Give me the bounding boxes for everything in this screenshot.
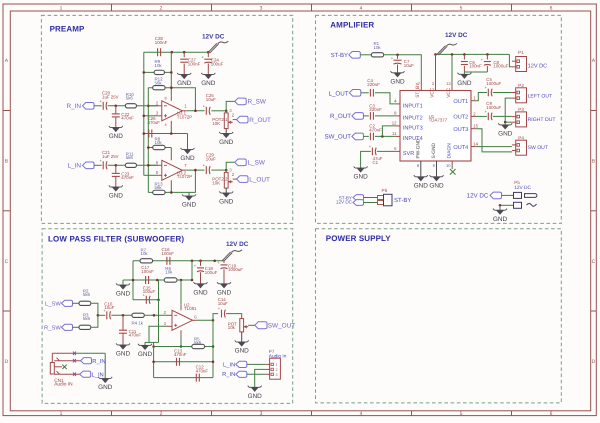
svg-text:R_SW: R_SW xyxy=(248,99,267,106)
svg-text:C1: C1 xyxy=(373,160,379,165)
svg-text:10uF: 10uF xyxy=(218,301,228,306)
svg-text:OUT1: OUT1 xyxy=(453,99,468,105)
svg-text:1000uF: 1000uF xyxy=(486,105,501,110)
svg-text:100uF: 100uF xyxy=(143,289,156,294)
svg-text:12V DC: 12V DC xyxy=(226,241,249,248)
svg-text:4: 4 xyxy=(360,411,363,417)
svg-text:SW OUT: SW OUT xyxy=(528,145,548,151)
svg-text:P6: P6 xyxy=(382,188,388,193)
svg-text:ST-BY: ST-BY xyxy=(331,52,348,59)
svg-text:TL081: TL081 xyxy=(184,306,197,311)
svg-text:LEFT OUT: LEFT OUT xyxy=(528,93,553,99)
svg-text:GND: GND xyxy=(177,80,192,87)
svg-text:11: 11 xyxy=(392,131,397,136)
svg-text:R_SW: R_SW xyxy=(44,325,61,332)
svg-text:10K: 10K xyxy=(212,180,220,185)
svg-text:OUT2: OUT2 xyxy=(453,115,468,121)
svg-text:D: D xyxy=(592,359,596,365)
svg-text:VCC: VCC xyxy=(429,87,435,98)
svg-text:GND: GND xyxy=(116,291,131,298)
svg-text:470nF: 470nF xyxy=(121,116,134,121)
svg-text:100nF: 100nF xyxy=(469,64,482,69)
svg-text:R4 1k: R4 1k xyxy=(132,320,144,325)
svg-text:10uF: 10uF xyxy=(404,63,414,68)
svg-text:TL072P: TL072P xyxy=(177,114,192,119)
svg-text:5k6: 5k6 xyxy=(83,292,91,297)
svg-text:GND: GND xyxy=(219,199,234,206)
svg-text:SW_OUT: SW_OUT xyxy=(325,134,352,141)
svg-text:1: 1 xyxy=(60,6,63,12)
svg-text:12V DC: 12V DC xyxy=(528,64,548,70)
svg-text:GND: GND xyxy=(429,182,444,189)
svg-text:2: 2 xyxy=(276,368,278,372)
svg-text:12V DC: 12V DC xyxy=(202,33,225,40)
svg-text:470nF: 470nF xyxy=(121,175,134,180)
svg-text:L_SW: L_SW xyxy=(248,160,266,167)
svg-text:4: 4 xyxy=(164,123,166,127)
svg-text:5k6: 5k6 xyxy=(126,96,134,101)
svg-text:12V DC: 12V DC xyxy=(514,185,531,191)
svg-text:R_OUT: R_OUT xyxy=(330,113,351,120)
svg-text:3: 3 xyxy=(260,411,263,417)
svg-text:470nF: 470nF xyxy=(369,127,382,132)
svg-text:56k: 56k xyxy=(155,185,163,190)
svg-text:8: 8 xyxy=(164,96,166,100)
svg-text:12: 12 xyxy=(392,121,397,126)
svg-text:L_OUT: L_OUT xyxy=(329,90,349,97)
svg-text:D: D xyxy=(5,359,9,365)
svg-text:5k6: 5k6 xyxy=(83,316,91,321)
svg-text:DIAGN: DIAGN xyxy=(447,143,453,159)
svg-text:POWER SUPPLY: POWER SUPPLY xyxy=(326,234,391,243)
svg-text:12V DC: 12V DC xyxy=(467,192,489,199)
svg-text:SVR: SVR xyxy=(403,151,415,157)
svg-text:10uF: 10uF xyxy=(104,305,114,310)
svg-text:10uF: 10uF xyxy=(206,97,216,102)
svg-text:PREAMP: PREAMP xyxy=(50,25,85,34)
svg-text:10k: 10k xyxy=(141,251,149,256)
svg-text:SW_OUT: SW_OUT xyxy=(268,322,295,329)
svg-text:1: 1 xyxy=(276,363,278,367)
svg-text:R_IN: R_IN xyxy=(66,103,81,110)
svg-text:ST-BY: ST-BY xyxy=(394,197,411,204)
svg-text:INPUT3: INPUT3 xyxy=(403,126,423,132)
svg-text:LOW PASS FILTER (SUBWOOFER): LOW PASS FILTER (SUBWOOFER) xyxy=(48,235,184,244)
svg-text:S-GND: S-GND xyxy=(431,143,437,159)
svg-text:1: 1 xyxy=(60,411,63,417)
svg-text:100nF: 100nF xyxy=(188,61,201,66)
svg-text:2: 2 xyxy=(160,6,163,12)
svg-text:100nF: 100nF xyxy=(162,251,175,256)
svg-text:L_IN: L_IN xyxy=(223,362,235,368)
svg-text:10k: 10k xyxy=(228,325,236,330)
svg-text:TDA7377: TDA7377 xyxy=(429,118,448,123)
svg-text:GND: GND xyxy=(217,289,232,296)
svg-text:PW-GND: PW-GND xyxy=(415,138,421,158)
svg-text:1uF 25V: 1uF 25V xyxy=(102,94,119,99)
svg-text:R_IN: R_IN xyxy=(222,372,235,378)
svg-text:C: C xyxy=(5,259,9,265)
svg-text:4: 4 xyxy=(360,6,363,12)
svg-text:GND: GND xyxy=(353,174,368,181)
svg-text:1000uF: 1000uF xyxy=(493,64,508,69)
svg-text:470nF: 470nF xyxy=(129,333,142,338)
svg-text:P1: P1 xyxy=(518,50,524,55)
svg-text:220nF: 220nF xyxy=(367,82,380,87)
svg-text:56k: 56k xyxy=(155,80,163,85)
svg-text:GND: GND xyxy=(235,348,250,355)
svg-text:100nF: 100nF xyxy=(155,40,168,45)
svg-text:L_IN: L_IN xyxy=(68,162,82,169)
svg-text:GND: GND xyxy=(219,139,234,146)
svg-text:3: 3 xyxy=(260,6,263,12)
svg-text:220nF: 220nF xyxy=(369,107,382,112)
svg-text:100nF: 100nF xyxy=(141,269,154,274)
svg-text:6: 6 xyxy=(550,411,553,417)
svg-text:1uF 25V: 1uF 25V xyxy=(102,154,119,159)
svg-text:12V DC: 12V DC xyxy=(445,32,468,39)
svg-text:GND: GND xyxy=(98,384,113,391)
svg-text:AMPLIFIER: AMPLIFIER xyxy=(330,21,374,30)
svg-text:5: 5 xyxy=(460,6,463,12)
svg-text:R_OUT: R_OUT xyxy=(249,117,271,124)
svg-text:GND: GND xyxy=(390,78,405,85)
svg-text:14: 14 xyxy=(473,142,478,147)
svg-text:OUT3: OUT3 xyxy=(453,127,468,133)
svg-text:GND: GND xyxy=(116,351,131,358)
svg-text:GND: GND xyxy=(182,202,197,209)
svg-text:GND: GND xyxy=(248,393,263,400)
svg-text:5k6: 5k6 xyxy=(194,340,202,345)
svg-text:5: 5 xyxy=(460,411,463,417)
svg-text:INPUT1: INPUT1 xyxy=(403,104,423,110)
svg-text:470uF: 470uF xyxy=(148,120,161,125)
svg-text:13: 13 xyxy=(446,81,451,86)
svg-text:10uF: 10uF xyxy=(206,156,216,161)
svg-text:470nF: 470nF xyxy=(174,352,187,357)
svg-text:1000uF: 1000uF xyxy=(486,81,501,86)
svg-text:10K: 10K xyxy=(212,121,220,126)
svg-text:OUT4: OUT4 xyxy=(453,145,468,151)
svg-text:15: 15 xyxy=(473,124,478,129)
svg-text:R_IN: R_IN xyxy=(92,359,105,365)
svg-text:5k6: 5k6 xyxy=(126,155,134,160)
svg-text:GND: GND xyxy=(457,80,472,87)
svg-text:10k: 10k xyxy=(155,140,163,145)
svg-text:3: 3 xyxy=(276,373,278,377)
svg-text:TL072P: TL072P xyxy=(177,174,192,179)
svg-text:2: 2 xyxy=(160,411,163,417)
svg-text:10k: 10k xyxy=(374,45,382,50)
svg-text:10k: 10k xyxy=(155,63,163,68)
svg-text:GND: GND xyxy=(414,182,429,189)
svg-text:10: 10 xyxy=(446,163,451,168)
svg-text:GND: GND xyxy=(180,155,195,162)
svg-text:GND: GND xyxy=(109,193,124,200)
svg-text:RIGHT OUT: RIGHT OUT xyxy=(528,117,556,123)
svg-text:470nF: 470nF xyxy=(196,368,209,373)
svg-text:P5: P5 xyxy=(514,180,520,185)
svg-text:6: 6 xyxy=(550,6,553,12)
svg-text:GND: GND xyxy=(201,80,216,87)
svg-text:P4: P4 xyxy=(518,135,524,140)
svg-text:L_IN: L_IN xyxy=(92,372,104,378)
svg-text:P2: P2 xyxy=(518,83,524,88)
svg-text:1000uF: 1000uF xyxy=(228,267,243,272)
svg-text:GND: GND xyxy=(498,131,513,138)
svg-text:VCC: VCC xyxy=(446,87,452,98)
svg-text:Audio IN: Audio IN xyxy=(54,382,73,388)
svg-text:INPUT2: INPUT2 xyxy=(403,116,423,122)
svg-text:L_SW: L_SW xyxy=(45,301,61,308)
svg-text:GND: GND xyxy=(493,216,508,223)
svg-text:GND: GND xyxy=(138,351,153,358)
svg-text:GND: GND xyxy=(193,289,208,296)
svg-text:12V DC: 12V DC xyxy=(336,199,353,204)
svg-text:100uF: 100uF xyxy=(211,61,224,66)
svg-text:100uF: 100uF xyxy=(205,270,218,275)
svg-text:L_OUT: L_OUT xyxy=(249,176,270,183)
svg-text:P3: P3 xyxy=(518,107,524,112)
svg-text:10k: 10k xyxy=(165,270,173,275)
svg-text:GND: GND xyxy=(109,133,124,140)
svg-text:C: C xyxy=(592,259,596,265)
